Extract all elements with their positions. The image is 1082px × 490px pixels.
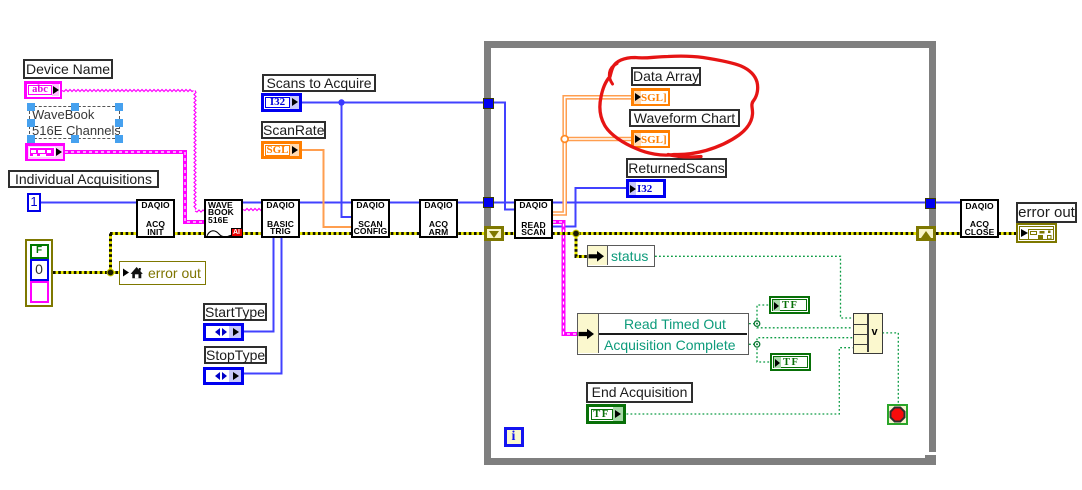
error out house label [119, 261, 206, 285]
shift register left (error) [484, 226, 504, 241]
wire: Acquisition Complete to TF and OR (green dotted) [749, 344, 770, 362]
wire: OR output to stop terminal (green dotted) [882, 333, 898, 404]
house glyph in error out house label [131, 267, 143, 278]
while loop border top [484, 41, 936, 48]
wire: channel cluster to WAVEBOOK (magenta cluster) [65, 152, 204, 222]
node DAQIO ACQ INIT [136, 199, 175, 238]
node: error wire junction dots [107, 269, 114, 276]
wire: error wire main run (yellow/black dashed) [110, 232, 916, 235]
while loop border left [484, 41, 491, 465]
enum control StopType [203, 367, 244, 385]
OR compound node [853, 313, 883, 354]
error cluster constant [25, 239, 53, 307]
black arrow glyph in error out house label [123, 269, 129, 277]
SGL control terminal [261, 141, 302, 160]
while loop border bottom [484, 458, 936, 465]
empty string constant [30, 281, 49, 304]
stop button terminal [887, 404, 908, 425]
label Individual Acquisitions [8, 170, 159, 188]
node DAQIO ACQ CLOSE [960, 199, 999, 238]
wire: error constant to error out house (yellow/black dashed) [53, 271, 119, 274]
enum control StartType [203, 323, 244, 341]
wire: StartType to BASIC TRIG (blue) [244, 238, 274, 332]
wire: Read Timed Out to TF and OR (green dotted) [749, 305, 770, 324]
unbundle status node [587, 245, 655, 267]
wire: status to OR gate (green dotted) [655, 256, 853, 318]
unbundle Read Timed Out / Acquisition Complete [577, 313, 749, 355]
wire: End Acquisition to OR (green dotted) [627, 348, 853, 414]
wire: branch to SCAN CONFIG (blue) [342, 103, 352, 218]
label error out (far right) [1016, 202, 1077, 223]
wire: device handle READ SCAN to ACQ CLOSE (blue) [553, 202, 961, 204]
wire: ScanRate to SCAN CONFIG (orange scalar) [302, 150, 351, 227]
cluster control terminal (channels) [25, 143, 65, 161]
I32 indicator (ReturnedScans) [626, 179, 666, 198]
wire: error constant branch up (yellow/black dashed) [109, 234, 112, 273]
wire: READ SCAN data array to Data Array terminal (orange array) [553, 97, 631, 213]
node WAVEBOOK 516E [204, 199, 243, 238]
label StartType [203, 303, 267, 321]
numeric 0 constant [30, 259, 49, 281]
shift register right (error) [916, 226, 936, 241]
loop tunnel: scans count (left border top) [483, 98, 494, 109]
wire: error branch down to status unbundle [576, 234, 587, 257]
wire: READ SCAN status cluster to unbundle (magenta cluster) [553, 222, 577, 334]
numeric constant 1 [27, 193, 41, 212]
label ScanRate [261, 121, 326, 139]
wire: device handle chain WAVEBOOK to loop (blue) [243, 202, 514, 204]
label Data Array [631, 67, 701, 86]
loop tunnel: device handle (left border) [483, 197, 494, 208]
node DAQIO ACQ ARM [419, 199, 458, 238]
node DAQIO READ SCAN [514, 199, 553, 239]
loop tunnel: device handle out (right border) [925, 198, 936, 209]
TF indicator top [769, 296, 810, 314]
free label WaveBook 516E Channels (selected) [29, 106, 120, 139]
label Waveform Chart [629, 109, 740, 128]
SGL array indicator (Waveform Chart) [631, 130, 670, 148]
SGL array indicator (Data Array) [631, 88, 670, 106]
black arrow glyph in Read Timed Out unbundle [579, 329, 595, 340]
label ReturnedScans [626, 158, 727, 178]
node DAQIO SCAN CONFIG [351, 199, 390, 238]
label StopType [204, 346, 267, 365]
label Scans to Acquire [262, 74, 376, 92]
red annotation circle around Data Array / Waveform Chart [600, 56, 758, 155]
selection handles [27, 103, 35, 111]
label Device Name [23, 59, 113, 79]
TF control End Acquisition [586, 404, 626, 424]
node DAQIO BASIC TRIG [261, 199, 300, 238]
string control terminal abc [24, 81, 62, 99]
boolean F constant [30, 244, 49, 260]
node: green wire junction rings [754, 321, 760, 327]
while loop border corner notch [925, 455, 936, 465]
I32 control terminal [261, 93, 302, 112]
wire: Scans to Acquire to loop tunnel (blue) [302, 102, 484, 104]
while loop border right [929, 41, 936, 452]
wire: Device Name string squiggle (magenta) [62, 90, 261, 213]
wire: StopType to BASIC TRIG (blue) [244, 238, 282, 374]
wire: READ SCAN to ReturnedScans (blue) [553, 188, 626, 227]
label End Acquisition [586, 382, 693, 403]
TF indicator bottom [770, 353, 811, 371]
node: orange wire junction ring [561, 136, 568, 143]
iteration terminal i [504, 427, 524, 447]
node: junction dot on Scans to Acquire wire [338, 99, 344, 105]
error out cluster indicator [1016, 223, 1057, 243]
black arrow glyph in status unbundle [589, 251, 605, 262]
wire: numeric constant 1 to ACQ INIT (blue) [41, 202, 137, 204]
wire: tunnel to READ SCAN count input (blue) [494, 103, 514, 210]
wire: error wire after loop to error out (yellow/black dashed) [936, 232, 1016, 235]
